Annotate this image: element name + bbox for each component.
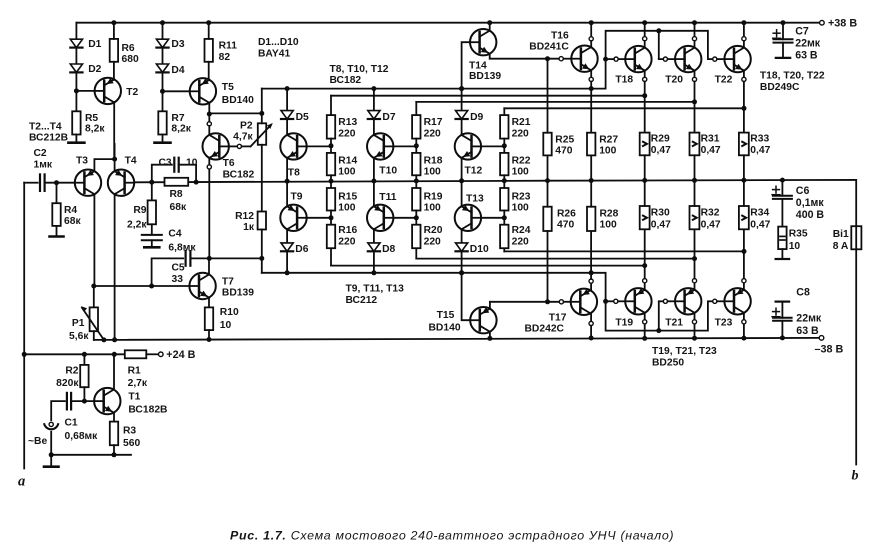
svg-text:220: 220 bbox=[512, 128, 529, 139]
svg-text:Т18, Т20, Т22: Т18, Т20, Т22 bbox=[760, 70, 825, 81]
svg-text:~Ве: ~Ве bbox=[28, 436, 47, 447]
svg-text:22мк: 22мк bbox=[795, 37, 821, 49]
svg-text:560: 560 bbox=[123, 438, 140, 449]
svg-text:33: 33 bbox=[172, 274, 184, 285]
svg-text:C6: C6 bbox=[796, 185, 810, 197]
svg-text:Т12: Т12 bbox=[465, 165, 483, 176]
svg-text:Т16: Т16 bbox=[551, 31, 569, 42]
svg-text:0,47: 0,47 bbox=[750, 145, 770, 156]
svg-text:5,6к: 5,6к bbox=[69, 331, 89, 342]
svg-text:R17: R17 bbox=[424, 117, 443, 128]
svg-text:Т5: Т5 bbox=[222, 82, 234, 93]
svg-text:R8: R8 bbox=[170, 189, 183, 200]
svg-text:220: 220 bbox=[424, 237, 441, 248]
svg-text:Рис. 1.7. Схема мостового 240-: Рис. 1.7. Схема мостового 240-ваттного э… bbox=[230, 528, 674, 542]
svg-text:470: 470 bbox=[557, 220, 574, 231]
svg-text:820к: 820к bbox=[56, 378, 79, 389]
svg-text:R34: R34 bbox=[750, 208, 769, 219]
svg-text:ВС182: ВС182 bbox=[330, 75, 362, 86]
svg-text:82: 82 bbox=[219, 52, 231, 63]
svg-text:68к: 68к bbox=[64, 216, 81, 227]
svg-text:Т8, Т10, Т12: Т8, Т10, Т12 bbox=[330, 64, 389, 75]
svg-text:R24: R24 bbox=[512, 225, 531, 236]
svg-text:10: 10 bbox=[220, 320, 232, 331]
svg-text:C7: C7 bbox=[795, 25, 809, 37]
svg-text:D7: D7 bbox=[382, 112, 395, 123]
svg-text:BD250: BD250 bbox=[652, 357, 684, 368]
svg-text:220: 220 bbox=[512, 237, 529, 248]
svg-text:С5: С5 bbox=[172, 262, 185, 273]
svg-text:Т19, Т21, Т23: Т19, Т21, Т23 bbox=[652, 346, 717, 357]
svg-text:R10: R10 bbox=[220, 307, 239, 318]
svg-text:R33: R33 bbox=[750, 133, 769, 144]
svg-text:100: 100 bbox=[338, 203, 355, 214]
svg-text:BD249C: BD249C bbox=[760, 82, 800, 93]
svg-text:0,47: 0,47 bbox=[701, 219, 721, 230]
svg-text:R35: R35 bbox=[789, 228, 808, 239]
svg-text:R18: R18 bbox=[424, 155, 443, 166]
svg-text:BD140: BD140 bbox=[429, 322, 461, 333]
svg-text:D3: D3 bbox=[171, 39, 184, 50]
svg-text:Т21: Т21 bbox=[665, 317, 683, 328]
svg-text:Т19: Т19 bbox=[615, 317, 633, 328]
svg-text:Т15: Т15 bbox=[437, 310, 455, 321]
svg-text:Т9: Т9 bbox=[291, 191, 303, 202]
svg-text:С3: С3 bbox=[159, 157, 172, 168]
svg-text:ВС212: ВС212 bbox=[346, 295, 378, 306]
svg-text:Р2: Р2 bbox=[240, 121, 253, 132]
svg-text:С4: С4 bbox=[168, 228, 181, 239]
svg-text:ВС182: ВС182 bbox=[223, 170, 255, 181]
svg-text:Т10: Т10 bbox=[379, 165, 397, 176]
svg-text:BD242C: BD242C bbox=[525, 324, 565, 335]
svg-text:D9: D9 bbox=[470, 112, 483, 123]
svg-text:R9: R9 bbox=[133, 205, 146, 216]
svg-text:R19: R19 bbox=[424, 191, 443, 202]
svg-text:63 В: 63 В bbox=[795, 49, 818, 61]
svg-text:R25: R25 bbox=[555, 135, 574, 146]
svg-text:BD139: BD139 bbox=[469, 71, 501, 82]
svg-text:ВС182В: ВС182В bbox=[128, 405, 167, 416]
svg-text:R20: R20 bbox=[424, 225, 443, 236]
svg-text:8 A: 8 A bbox=[833, 241, 849, 252]
svg-text:8,2к: 8,2к bbox=[171, 123, 191, 134]
svg-text:470: 470 bbox=[555, 145, 572, 156]
svg-text:100: 100 bbox=[338, 166, 355, 177]
svg-text:Т20: Т20 bbox=[665, 74, 683, 85]
svg-text:ВС212В: ВС212В bbox=[29, 133, 68, 144]
svg-text:Т23: Т23 bbox=[715, 317, 733, 328]
svg-text:R11: R11 bbox=[219, 41, 238, 52]
svg-text:220: 220 bbox=[338, 237, 355, 248]
svg-text:BD241C: BD241C bbox=[529, 41, 569, 52]
svg-text:R5: R5 bbox=[85, 113, 98, 124]
svg-text:+38 В: +38 В bbox=[828, 18, 857, 30]
svg-text:Т6: Т6 bbox=[223, 158, 235, 169]
svg-text:Т11: Т11 bbox=[379, 192, 396, 203]
svg-text:R27: R27 bbox=[599, 135, 618, 146]
svg-text:220: 220 bbox=[424, 128, 441, 139]
svg-text:0,68мк: 0,68мк bbox=[65, 431, 99, 442]
svg-text:Т18: Т18 bbox=[615, 74, 633, 85]
svg-text:220: 220 bbox=[338, 128, 355, 139]
svg-text:D1...D10: D1...D10 bbox=[258, 37, 299, 48]
svg-text:R6: R6 bbox=[122, 43, 135, 54]
svg-text:C8: C8 bbox=[796, 287, 810, 299]
svg-text:BAY41: BAY41 bbox=[258, 49, 291, 60]
svg-text:D2: D2 bbox=[88, 64, 101, 75]
svg-text:680: 680 bbox=[122, 54, 139, 65]
svg-text:R23: R23 bbox=[512, 191, 531, 202]
svg-text:R3: R3 bbox=[123, 425, 136, 436]
svg-text:100: 100 bbox=[424, 166, 441, 177]
svg-text:R29: R29 bbox=[651, 133, 670, 144]
svg-text:Т3: Т3 bbox=[76, 156, 88, 167]
svg-text:100: 100 bbox=[512, 166, 529, 177]
svg-text:R13: R13 bbox=[338, 117, 357, 128]
svg-text:Т9, Т11, Т13: Т9, Т11, Т13 bbox=[346, 283, 405, 294]
svg-text:100: 100 bbox=[512, 203, 529, 214]
svg-text:R28: R28 bbox=[600, 209, 619, 220]
svg-text:R1: R1 bbox=[128, 365, 141, 376]
svg-text:D5: D5 bbox=[296, 112, 309, 123]
svg-text:a: a bbox=[18, 474, 25, 490]
svg-text:2,7к: 2,7к bbox=[128, 378, 148, 389]
svg-text:0,47: 0,47 bbox=[651, 219, 671, 230]
svg-text:R22: R22 bbox=[512, 155, 531, 166]
svg-text:100: 100 bbox=[424, 203, 441, 214]
svg-text:Т4: Т4 bbox=[125, 156, 137, 167]
svg-text:С1: С1 bbox=[65, 417, 78, 428]
svg-text:R32: R32 bbox=[701, 208, 720, 219]
svg-text:Т1: Т1 bbox=[128, 392, 140, 403]
svg-text:R14: R14 bbox=[338, 155, 357, 166]
svg-text:b: b bbox=[852, 469, 859, 484]
svg-text:Р1: Р1 bbox=[72, 318, 85, 329]
svg-text:+24 В: +24 В bbox=[166, 349, 195, 361]
svg-text:D8: D8 bbox=[382, 244, 395, 255]
svg-text:D4: D4 bbox=[171, 65, 184, 76]
svg-text:1мк: 1мк bbox=[34, 159, 53, 170]
svg-text:Т2: Т2 bbox=[126, 87, 138, 98]
svg-text:Bi1: Bi1 bbox=[833, 229, 849, 240]
svg-text:R2: R2 bbox=[65, 365, 78, 376]
svg-text:Т2...Т4: Т2...Т4 bbox=[29, 121, 62, 132]
svg-text:0,47: 0,47 bbox=[750, 219, 770, 230]
svg-text:R26: R26 bbox=[557, 209, 576, 220]
svg-text:400 В: 400 В bbox=[796, 209, 825, 221]
svg-text:R21: R21 bbox=[512, 117, 531, 128]
svg-text:1к: 1к bbox=[243, 222, 255, 233]
svg-text:63 В: 63 В bbox=[796, 325, 819, 337]
svg-text:0,47: 0,47 bbox=[701, 145, 721, 156]
svg-text:0,1мк: 0,1мк bbox=[796, 197, 825, 209]
svg-text:R4: R4 bbox=[64, 205, 77, 216]
svg-text:10: 10 bbox=[186, 157, 198, 168]
svg-text:100: 100 bbox=[599, 145, 616, 156]
svg-text:R7: R7 bbox=[171, 113, 184, 124]
svg-text:R12: R12 bbox=[235, 211, 254, 222]
svg-text:R15: R15 bbox=[338, 191, 357, 202]
svg-text:68к: 68к bbox=[170, 202, 187, 213]
svg-text:22мк: 22мк bbox=[796, 313, 822, 325]
svg-text:10: 10 bbox=[789, 241, 801, 252]
svg-text:2,2к: 2,2к bbox=[127, 220, 147, 231]
svg-text:–38 В: –38 В bbox=[815, 343, 844, 355]
svg-text:С2: С2 bbox=[34, 148, 47, 159]
svg-text:8,2к: 8,2к bbox=[85, 123, 105, 134]
svg-text:D1: D1 bbox=[88, 39, 101, 50]
svg-text:Т7: Т7 bbox=[222, 276, 234, 287]
svg-text:Т13: Т13 bbox=[466, 194, 484, 205]
svg-text:Т22: Т22 bbox=[715, 74, 733, 85]
svg-text:100: 100 bbox=[600, 220, 617, 231]
svg-text:R30: R30 bbox=[651, 208, 670, 219]
svg-text:0,47: 0,47 bbox=[651, 145, 671, 156]
svg-text:BD140: BD140 bbox=[222, 95, 254, 106]
svg-text:D10: D10 bbox=[470, 244, 489, 255]
svg-text:4,7к: 4,7к bbox=[233, 131, 253, 142]
svg-text:D6: D6 bbox=[295, 244, 308, 255]
svg-text:R16: R16 bbox=[338, 225, 357, 236]
svg-text:R31: R31 bbox=[701, 133, 720, 144]
svg-text:BD139: BD139 bbox=[222, 288, 254, 299]
svg-text:Т17: Т17 bbox=[549, 313, 567, 324]
svg-text:6,8мк: 6,8мк bbox=[168, 242, 196, 253]
svg-text:Т8: Т8 bbox=[288, 167, 300, 178]
